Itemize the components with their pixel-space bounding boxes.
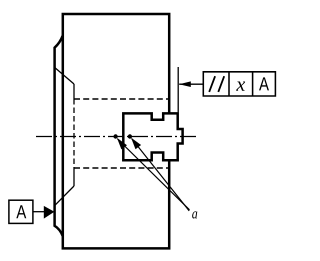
tolerance value x [236, 82, 245, 91]
flange left edge with rounded ends [55, 36, 63, 236]
leader arrowhead [179, 81, 191, 87]
datum reference letter A in frame [259, 77, 269, 90]
point dot left [113, 134, 117, 138]
datum triangle (filled) [44, 206, 55, 219]
label a [192, 211, 197, 218]
chamfer neck edge bottom (solid thin vertical) [73, 168, 75, 186]
hidden line bottom (dashed bore line) [74, 167, 169, 169]
point dot right [128, 134, 132, 138]
datum box [9, 200, 33, 223]
chamfer neck edge top (solid thin vertical) [73, 84, 75, 99]
centerline (horizontal dash-dot axis) [36, 136, 196, 138]
stepped feature (profile with notches and right tab) [123, 113, 182, 160]
datum letter A [16, 205, 26, 218]
chamfer diagonal bottom [55, 186, 74, 205]
leader line a2 [132, 139, 189, 211]
feature control frame box [203, 72, 275, 96]
leader line to feature control frame [179, 83, 203, 85]
parallelism symbol // [209, 76, 224, 92]
hidden line top (dashed bore line) [74, 98, 169, 100]
extension line (right face, up to leader arrow) [177, 67, 179, 112]
arrowhead a1 [117, 138, 127, 150]
datum leader line [33, 211, 44, 213]
leader line a1 [118, 139, 190, 210]
arrowhead a2 [131, 138, 141, 150]
chamfer diagonal top [55, 68, 74, 84]
main body outline (rectangle, right edge interrupted by stepped feature) [63, 14, 169, 248]
hidden vertical line (dashed, rear face) [73, 99, 75, 168]
